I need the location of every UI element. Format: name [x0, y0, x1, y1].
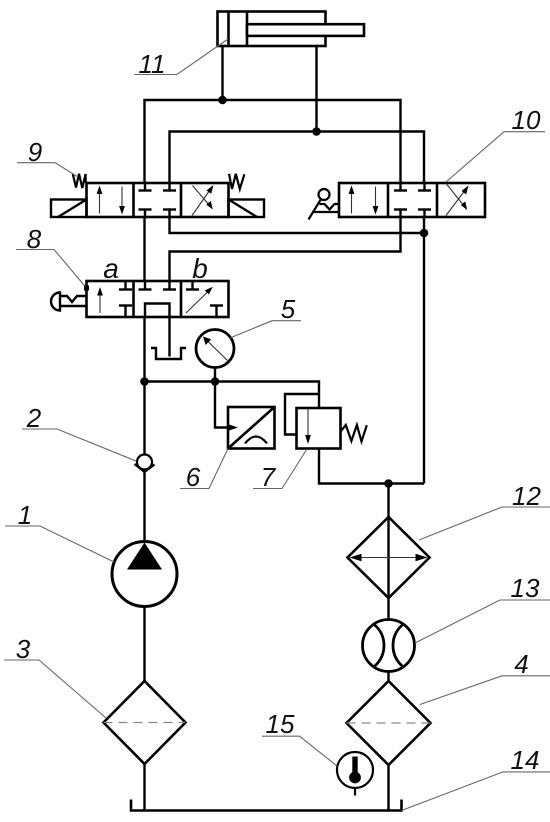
svg-text:5: 5 — [281, 294, 296, 324]
valve V8 middle square blocked top ports — [139, 281, 177, 290]
pump P1 — [112, 542, 177, 607]
valve V9 right solenoid — [229, 200, 265, 218]
valve V9 left square down arrow — [119, 187, 125, 215]
cooler HE12 diamond — [348, 517, 430, 598]
throttle F6 inlet arrowhead — [229, 425, 238, 431]
filter F3 diamond — [104, 681, 186, 764]
valve V10 left square up arrow — [349, 186, 355, 214]
label 11 — [134, 39, 228, 79]
valve V8 middle square bottom channel — [145, 304, 170, 318]
junction dot net C — [420, 229, 429, 238]
relief valve RV7 spring — [341, 425, 367, 442]
valve V9 body — [87, 183, 229, 217]
relief valve RV7 pilot line — [285, 394, 319, 435]
wire valve V9 to valve V8 left — [143, 217, 145, 281]
label 3 — [4, 634, 106, 718]
wire filter F3 to tank — [143, 764, 145, 811]
pressure gauge G5 stem — [214, 368, 216, 382]
label 10 — [446, 105, 545, 182]
svg-text:14: 14 — [511, 745, 540, 775]
junction dot net E left — [140, 377, 149, 386]
wire net F down through cooler — [387, 484, 389, 620]
junction dot net F — [384, 479, 393, 488]
thermometer T15 — [337, 752, 373, 788]
label 12 — [419, 481, 550, 540]
wire pump to filter F3 — [143, 607, 145, 682]
valve V10 right square crossed arrows — [446, 184, 469, 216]
label 15 — [262, 709, 337, 766]
valve V8 drain line — [168, 317, 170, 357]
label 1 — [5, 500, 114, 562]
valve V8 right square blocked ports — [186, 281, 223, 317]
cylinder C11 right port wire — [315, 46, 317, 132]
valve V10 body — [339, 183, 485, 217]
wire net B horizontal y=131.5 — [170, 132, 425, 184]
junction dot net B / cylinder right — [312, 127, 321, 136]
svg-text:b: b — [192, 253, 208, 284]
relief valve RV7 outlet wire — [319, 449, 424, 484]
pressure gauge G5 — [196, 330, 234, 368]
svg-text:7: 7 — [261, 462, 277, 492]
label 14 — [402, 745, 550, 811]
pump P1 triangle — [127, 543, 162, 570]
label 5 — [230, 294, 301, 338]
valve V8 right square diagonal arrow — [186, 287, 213, 313]
wire net E horizontal y=381.5 — [145, 382, 320, 409]
valve V8 body — [87, 281, 229, 317]
wire valve V8 bottom left to net E — [143, 317, 145, 382]
valve V8 left square blocked ports — [119, 281, 132, 317]
wire net A horizontal y=100 — [145, 100, 401, 183]
cylinder C11 piston — [229, 12, 248, 47]
valve V9 right square crossed arrows — [192, 185, 214, 216]
pressure gauge G5 needle — [203, 337, 228, 361]
tank T14 — [131, 800, 402, 811]
valve V9 left solenoid — [51, 200, 87, 218]
throttle F6 arc — [245, 437, 267, 444]
valve V9 left square up arrow — [97, 186, 103, 214]
filter F3 dashed element — [104, 722, 186, 724]
label 8 — [16, 224, 89, 291]
svg-text:4: 4 — [514, 649, 528, 679]
cylinder C11 body — [218, 12, 326, 47]
wire valve V9 bottom right drop — [170, 217, 425, 233]
relief valve RV7 box — [297, 408, 341, 449]
wire check valve branch — [143, 382, 145, 455]
label 7 — [253, 449, 307, 492]
valve V8 left square up arrow — [97, 287, 103, 313]
filter F4 diamond — [347, 681, 431, 765]
cooler HE12 double arrow — [350, 554, 428, 562]
filter F4 dashed element — [347, 722, 431, 724]
valve V10 middle square blocked ports — [394, 183, 431, 217]
wire flow meter to filter F4 — [387, 672, 389, 682]
label 2 — [22, 403, 136, 461]
wire check valve to pump — [143, 472, 145, 542]
wire filter F4 to tank — [387, 765, 389, 811]
cylinder C11 rod — [247, 24, 364, 36]
valve V9 right spring — [229, 174, 244, 189]
label 9 — [17, 137, 78, 177]
tank symbol at valve V8 drain — [151, 348, 186, 359]
svg-text:6: 6 — [186, 462, 201, 492]
thermometer T15 stem — [354, 788, 356, 796]
junction dot net A / cylinder left — [218, 96, 227, 105]
valve V10 left square down arrow — [373, 187, 379, 215]
valve V10 pedal actuator — [309, 189, 340, 220]
svg-text:a: a — [103, 253, 119, 284]
wire valve V10 bottom right long drop — [423, 217, 425, 484]
throttle F6 box — [228, 407, 275, 449]
wire feed to throttle F6 — [215, 382, 230, 428]
label 4 — [420, 649, 550, 705]
cylinder C11 left port wire — [221, 46, 223, 100]
svg-text:13: 13 — [511, 573, 540, 603]
label 6 — [180, 449, 228, 493]
valve V9 left spring — [73, 174, 86, 188]
svg-text:15: 15 — [266, 709, 295, 739]
check valve CV2 — [135, 455, 155, 473]
valve V9 middle square blocked ports — [139, 183, 177, 217]
relief valve RV7 arrow — [305, 409, 311, 444]
flow meter FM13 inner arcs — [329, 618, 448, 673]
svg-text:10: 10 — [512, 105, 541, 135]
flow meter FM13 — [363, 620, 415, 672]
valve V8 lever actuator — [51, 293, 87, 311]
wire net D valve V8 to valve V10 — [170, 217, 401, 281]
junction dot net E gauge — [211, 377, 220, 386]
label 13 — [415, 573, 550, 643]
thermometer T15 bulb — [352, 757, 357, 775]
